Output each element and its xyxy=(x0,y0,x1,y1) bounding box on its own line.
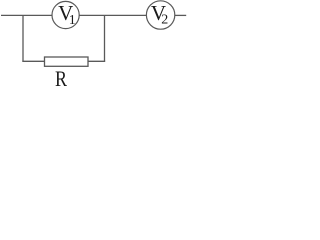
wire: lower right horizontal xyxy=(88,60,105,62)
wire: lower left horizontal xyxy=(22,60,44,62)
wire: top left segment xyxy=(1,14,52,16)
svg-text:1: 1 xyxy=(69,13,76,28)
resistor R xyxy=(45,57,89,91)
svg-text:R: R xyxy=(55,66,67,89)
wire: left branch vertical drop xyxy=(22,15,24,61)
wire: between V1 and V2 xyxy=(79,14,146,16)
voltmeter V2 xyxy=(146,1,174,29)
svg-text:2: 2 xyxy=(161,13,168,28)
voltmeter V1 xyxy=(52,1,79,28)
wire: right branch vertical drop xyxy=(104,15,106,61)
wire: top right segment xyxy=(175,14,186,16)
